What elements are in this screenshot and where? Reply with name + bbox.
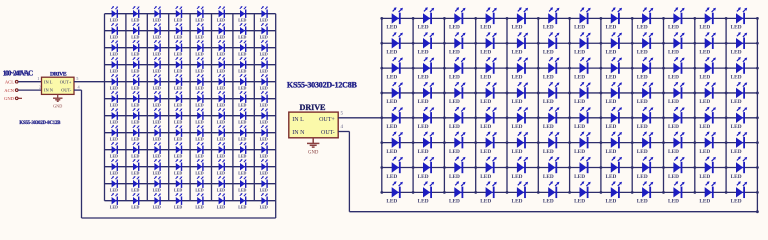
LED D118 (right matrix row 2 col 10) xyxy=(668,32,685,55)
LED D49 (left matrix row 7 col 1) xyxy=(110,108,118,124)
LED D38 (left matrix row 5 col 6) xyxy=(217,74,225,90)
LED D160 (right matrix row 6 col 4) xyxy=(480,132,497,155)
LED D45 (left matrix row 6 col 5) xyxy=(195,91,203,107)
driver module U1 DRIVE (left) xyxy=(42,71,75,94)
LED D59 (left matrix row 8 col 3) xyxy=(153,125,161,141)
LED D165 (right matrix row 6 col 9) xyxy=(637,132,654,155)
svg-text:1: 1 xyxy=(37,76,39,81)
LED D71 (left matrix row 9 col 7) xyxy=(238,142,246,158)
LED D107 (right matrix row 1 col 11) xyxy=(699,7,716,30)
LED D27 (left matrix row 4 col 3) xyxy=(153,57,161,73)
LED D86 (left matrix row 11 col 6) xyxy=(217,176,225,192)
LED D188 (right matrix row 8 col 8) xyxy=(605,181,622,204)
LED D67 (left matrix row 9 col 3) xyxy=(153,142,161,158)
LED D116 (right matrix row 2 col 8) xyxy=(605,32,622,55)
svg-text:OUT+: OUT+ xyxy=(319,117,335,123)
LED D131 (right matrix row 3 col 11) xyxy=(699,57,716,80)
svg-text:DRIVE: DRIVE xyxy=(300,103,327,112)
LED D12 (left matrix row 2 col 4) xyxy=(174,23,182,39)
LED D32 (left matrix row 4 col 8) xyxy=(260,57,268,73)
LED D52 (left matrix row 7 col 4) xyxy=(174,108,182,124)
LED D155 (right matrix row 5 col 11) xyxy=(699,107,716,130)
svg-text:IN N: IN N xyxy=(292,130,305,136)
LED D159 (right matrix row 6 col 3) xyxy=(449,132,466,155)
LED D133 (right matrix row 4 col 1) xyxy=(386,82,403,105)
LED D127 (right matrix row 3 col 7) xyxy=(574,57,591,80)
junction dots (right matrix) xyxy=(380,17,758,213)
LED D31 (left matrix row 4 col 7) xyxy=(238,57,246,73)
wire: left matrix column line 6 xyxy=(211,14,213,201)
LED D48 (left matrix row 6 col 8) xyxy=(260,91,268,107)
LED D43 (left matrix row 6 col 3) xyxy=(153,91,161,107)
LED D141 (right matrix row 4 col 9) xyxy=(637,82,654,105)
svg-text:5: 5 xyxy=(341,110,344,116)
wire: left matrix column line 1 xyxy=(104,14,106,201)
LED D103 (right matrix row 1 col 7) xyxy=(574,7,591,30)
LED D115 (right matrix row 2 col 7) xyxy=(574,32,591,55)
LED D142 (right matrix row 4 col 10) xyxy=(668,82,685,105)
LED D192 (right matrix row 8 col 12) xyxy=(731,181,748,204)
LED D8 (left matrix row 1 col 8) xyxy=(260,6,268,22)
wire: right matrix column line 12 xyxy=(725,18,727,192)
LED D87 (left matrix row 11 col 7) xyxy=(238,176,246,192)
LED D7 (left matrix row 1 col 7) xyxy=(238,6,246,22)
LED D54 (left matrix row 7 col 6) xyxy=(217,108,225,124)
LED D136 (right matrix row 4 col 4) xyxy=(480,82,497,105)
LED D137 (right matrix row 4 col 5) xyxy=(512,82,529,105)
wire: left matrix row 10 bus xyxy=(105,166,276,168)
svg-text:GND: GND xyxy=(53,104,62,109)
LED D147 (right matrix row 5 col 3) xyxy=(449,107,466,130)
wire OUT+ of U1 to left matrix xyxy=(74,81,105,83)
wire left matrix bottom return bus xyxy=(82,217,276,219)
LED D94 (left matrix row 12 col 6) xyxy=(217,193,225,209)
LED D19 (left matrix row 3 col 3) xyxy=(153,40,161,56)
wire: right matrix row 2 bus xyxy=(382,42,758,44)
LED D187 (right matrix row 8 col 7) xyxy=(574,181,591,204)
LED D175 (right matrix row 7 col 7) xyxy=(574,156,591,179)
LED D119 (right matrix row 2 col 11) xyxy=(699,32,716,55)
LED D166 (right matrix row 6 col 10) xyxy=(668,132,685,155)
svg-text:GND: GND xyxy=(308,151,319,156)
wire: left matrix row 5 bus xyxy=(105,81,276,83)
LED D124 (right matrix row 3 col 4) xyxy=(480,57,497,80)
LED D76 (left matrix row 10 col 4) xyxy=(174,159,182,175)
LED D117 (right matrix row 2 col 9) xyxy=(637,32,654,55)
wire: left matrix row 2 bus xyxy=(105,30,276,32)
wire: left matrix row 9 bus xyxy=(105,149,276,151)
wire: left matrix column line 5 xyxy=(189,14,191,201)
wire OUT- of U1 down and along bottom xyxy=(74,89,82,91)
wire: left matrix row 11 bus xyxy=(105,183,276,185)
wire: right matrix column line 2 xyxy=(412,18,414,192)
wire: right matrix column line 3 xyxy=(443,18,445,192)
driver module U2 DRIVE (right) xyxy=(289,103,338,138)
wire: right matrix row 6 bus xyxy=(382,142,758,144)
LED D170 (right matrix row 7 col 2) xyxy=(418,156,435,179)
LED D51 (left matrix row 7 col 3) xyxy=(153,108,161,124)
LED D22 (left matrix row 3 col 6) xyxy=(217,40,225,56)
LED D77 (left matrix row 10 col 5) xyxy=(195,159,203,175)
svg-text:ACL: ACL xyxy=(5,79,14,84)
wire: left matrix row 1 bus xyxy=(105,13,276,15)
LED D143 (right matrix row 4 col 11) xyxy=(699,82,716,105)
svg-text:KS55-30302D-8C12B: KS55-30302D-8C12B xyxy=(19,121,61,126)
LED D173 (right matrix row 7 col 5) xyxy=(512,156,529,179)
wire: left matrix row 12 bus xyxy=(105,200,276,202)
LED D145 (right matrix row 5 col 1) xyxy=(386,107,403,130)
LED D121 (right matrix row 3 col 1) xyxy=(386,57,403,80)
LED D34 (left matrix row 5 col 2) xyxy=(131,74,139,90)
LED D178 (right matrix row 7 col 10) xyxy=(668,156,685,179)
LED D112 (right matrix row 2 col 4) xyxy=(480,32,497,55)
LED D37 (left matrix row 5 col 5) xyxy=(195,74,203,90)
LED D46 (left matrix row 6 col 6) xyxy=(217,91,225,107)
LED D69 (left matrix row 9 col 5) xyxy=(195,142,203,158)
LED D23 (left matrix row 3 col 7) xyxy=(238,40,246,56)
LED D17 (left matrix row 3 col 1) xyxy=(110,40,118,56)
svg-text:IN N: IN N xyxy=(44,88,54,93)
LED D85 (left matrix row 11 col 5) xyxy=(195,176,203,192)
LED D2 (left matrix row 1 col 2) xyxy=(131,6,139,22)
LED D157 (right matrix row 6 col 1) xyxy=(386,132,403,155)
LED D89 (left matrix row 12 col 1) xyxy=(110,193,118,209)
wire: right matrix column line 9 xyxy=(631,18,633,192)
LED D13 (left matrix row 2 col 5) xyxy=(195,23,203,39)
LED D138 (right matrix row 4 col 6) xyxy=(543,82,560,105)
LED D73 (left matrix row 10 col 1) xyxy=(110,159,118,175)
LED D79 (left matrix row 10 col 7) xyxy=(238,159,246,175)
wire: left matrix row 3 bus xyxy=(105,47,276,49)
svg-text:IN L: IN L xyxy=(292,117,304,123)
LED D24 (left matrix row 3 col 8) xyxy=(260,40,268,56)
LED D47 (left matrix row 6 col 7) xyxy=(238,91,246,107)
LED D60 (left matrix row 8 col 4) xyxy=(174,125,182,141)
LED D132 (right matrix row 3 col 12) xyxy=(731,57,748,80)
wire: left matrix column line 4 xyxy=(168,14,170,201)
LED D174 (right matrix row 7 col 6) xyxy=(543,156,560,179)
LED D68 (left matrix row 9 col 4) xyxy=(174,142,182,158)
LED D82 (left matrix row 11 col 2) xyxy=(131,176,139,192)
LED D156 (right matrix row 5 col 12) xyxy=(731,107,748,130)
LED D15 (left matrix row 2 col 7) xyxy=(238,23,246,39)
wire OUT+ of U2 to right matrix xyxy=(338,117,382,119)
wire: right matrix row 4 bus xyxy=(382,92,758,94)
LED D172 (right matrix row 7 col 4) xyxy=(480,156,497,179)
LED D18 (left matrix row 3 col 2) xyxy=(131,40,139,56)
LED D3 (left matrix row 1 col 3) xyxy=(153,6,161,22)
LED D40 (left matrix row 5 col 8) xyxy=(260,74,268,90)
wire: right matrix column line 11 xyxy=(694,18,696,192)
wire: left matrix column line 3 xyxy=(146,14,148,201)
LED D108 (right matrix row 1 col 12) xyxy=(731,7,748,30)
LED D125 (right matrix row 3 col 5) xyxy=(512,57,529,80)
LED D135 (right matrix row 4 col 3) xyxy=(449,82,466,105)
LED D93 (left matrix row 12 col 5) xyxy=(195,193,203,209)
svg-text:2: 2 xyxy=(39,85,41,90)
LED D180 (right matrix row 7 col 12) xyxy=(731,156,748,179)
LED D150 (right matrix row 5 col 6) xyxy=(543,107,560,130)
wire: right matrix column line 13 xyxy=(756,18,758,192)
svg-text:OUT-: OUT- xyxy=(321,130,335,136)
LED D179 (right matrix row 7 col 11) xyxy=(699,156,716,179)
LED D169 (right matrix row 7 col 1) xyxy=(386,156,403,179)
LED D42 (left matrix row 6 col 2) xyxy=(131,91,139,107)
LED D122 (right matrix row 3 col 2) xyxy=(418,57,435,80)
LED D106 (right matrix row 1 col 10) xyxy=(668,7,685,30)
svg-text:5: 5 xyxy=(76,76,78,81)
LED D6 (left matrix row 1 col 6) xyxy=(217,6,225,22)
wire: right matrix column line 7 xyxy=(569,18,571,192)
LED D74 (left matrix row 10 col 2) xyxy=(131,159,139,175)
LED D146 (right matrix row 5 col 2) xyxy=(418,107,435,130)
LED D20 (left matrix row 3 col 4) xyxy=(174,40,182,56)
LED D126 (right matrix row 3 col 6) xyxy=(543,57,560,80)
svg-text:GND: GND xyxy=(4,96,15,101)
LED D104 (right matrix row 1 col 8) xyxy=(605,7,622,30)
LED D9 (left matrix row 2 col 1) xyxy=(110,23,118,39)
LED D102 (right matrix row 1 col 6) xyxy=(543,7,560,30)
LED D44 (left matrix row 6 col 4) xyxy=(174,91,182,107)
LED D110 (right matrix row 2 col 2) xyxy=(418,32,435,55)
LED D154 (right matrix row 5 col 10) xyxy=(668,107,685,130)
LED D72 (left matrix row 9 col 8) xyxy=(260,142,268,158)
LED D78 (left matrix row 10 col 6) xyxy=(217,159,225,175)
LED D1 (left matrix row 1 col 1) xyxy=(110,6,118,22)
LED D55 (left matrix row 7 col 7) xyxy=(238,108,246,124)
LED D95 (left matrix row 12 col 7) xyxy=(238,193,246,209)
LED D134 (right matrix row 4 col 2) xyxy=(418,82,435,105)
LED D5 (left matrix row 1 col 5) xyxy=(195,6,203,22)
LED D36 (left matrix row 5 col 4) xyxy=(174,74,182,90)
LED D139 (right matrix row 4 col 7) xyxy=(574,82,591,105)
LED D41 (left matrix row 6 col 1) xyxy=(110,91,118,107)
svg-text:100~240VAC: 100~240VAC xyxy=(3,70,34,78)
wire: left matrix row 4 bus xyxy=(105,64,276,66)
LED D149 (right matrix row 5 col 5) xyxy=(512,107,529,130)
LED D14 (left matrix row 2 col 6) xyxy=(217,23,225,39)
LED D28 (left matrix row 4 col 4) xyxy=(174,57,182,73)
LED D114 (right matrix row 2 col 6) xyxy=(543,32,560,55)
wire: left matrix row 6 bus xyxy=(105,98,276,100)
wire OUT- of U2 down xyxy=(338,131,349,133)
LED D171 (right matrix row 7 col 3) xyxy=(449,156,466,179)
LED D81 (left matrix row 11 col 1) xyxy=(110,176,118,192)
LED D50 (left matrix row 7 col 2) xyxy=(131,108,139,124)
LED D10 (left matrix row 2 col 2) xyxy=(131,23,139,39)
port GND input xyxy=(4,96,22,101)
LED D61 (left matrix row 8 col 5) xyxy=(195,125,203,141)
LED D105 (right matrix row 1 col 9) xyxy=(637,7,654,30)
LED D128 (right matrix row 3 col 8) xyxy=(605,57,622,80)
wire: left matrix row 7 bus xyxy=(105,115,276,117)
LED D148 (right matrix row 5 col 4) xyxy=(480,107,497,130)
LED D163 (right matrix row 6 col 7) xyxy=(574,132,591,155)
LED D167 (right matrix row 6 col 11) xyxy=(699,132,716,155)
wire: right matrix column line 8 xyxy=(600,18,602,192)
wire ACN to IN N pin 2 xyxy=(18,89,41,91)
svg-text:DRIVE: DRIVE xyxy=(50,71,67,77)
svg-text:KS55-30302D-12C8B: KS55-30302D-12C8B xyxy=(287,81,358,90)
LED D63 (left matrix row 8 col 7) xyxy=(238,125,246,141)
LED D90 (left matrix row 12 col 2) xyxy=(131,193,139,209)
wire: right matrix column line 6 xyxy=(537,18,539,192)
wire: right matrix column line 1 xyxy=(381,18,383,192)
wire: left matrix column line 8 xyxy=(253,14,255,201)
svg-text:OUT+: OUT+ xyxy=(60,80,72,85)
svg-text:OUT-: OUT- xyxy=(61,88,72,93)
LED D64 (left matrix row 8 col 8) xyxy=(260,125,268,141)
LED D70 (left matrix row 9 col 6) xyxy=(217,142,225,158)
wire: right matrix row 1 bus xyxy=(382,17,758,19)
LED D66 (left matrix row 9 col 2) xyxy=(131,142,139,158)
LED D177 (right matrix row 7 col 9) xyxy=(637,156,654,179)
wire: right matrix row 7 bus xyxy=(382,167,758,169)
LED D26 (left matrix row 4 col 2) xyxy=(131,57,139,73)
port ACN xyxy=(4,88,18,93)
LED D162 (right matrix row 6 col 6) xyxy=(543,132,560,155)
LED D113 (right matrix row 2 col 5) xyxy=(512,32,529,55)
LED D152 (right matrix row 5 col 8) xyxy=(605,107,622,130)
LED D186 (right matrix row 8 col 6) xyxy=(543,181,560,204)
svg-text:4: 4 xyxy=(341,124,344,130)
ground symbol of U1 xyxy=(53,94,63,108)
LED D181 (right matrix row 8 col 1) xyxy=(386,181,403,204)
LED D120 (right matrix row 2 col 12) xyxy=(731,32,748,55)
LED D80 (left matrix row 10 col 8) xyxy=(260,159,268,175)
LED D109 (right matrix row 2 col 1) xyxy=(386,32,403,55)
LED D130 (right matrix row 3 col 10) xyxy=(668,57,685,80)
ground symbol of U2 xyxy=(307,138,319,156)
LED D91 (left matrix row 12 col 3) xyxy=(153,193,161,209)
LED D190 (right matrix row 8 col 10) xyxy=(668,181,685,204)
LED D129 (right matrix row 3 col 9) xyxy=(637,57,654,80)
LED D123 (right matrix row 3 col 3) xyxy=(449,57,466,80)
LED D191 (right matrix row 8 col 11) xyxy=(699,181,716,204)
LED D185 (right matrix row 8 col 5) xyxy=(512,181,529,204)
wire: right matrix row 8 bus xyxy=(382,191,758,193)
wire: left matrix column line 9 xyxy=(275,14,277,201)
wire: right matrix column line 10 xyxy=(663,18,665,192)
LED D176 (right matrix row 7 col 8) xyxy=(605,156,622,179)
LED D182 (right matrix row 8 col 2) xyxy=(418,181,435,204)
wire: left matrix column line 2 xyxy=(125,14,127,201)
LED D144 (right matrix row 4 col 12) xyxy=(731,82,748,105)
LED D168 (right matrix row 6 col 12) xyxy=(731,132,748,155)
LED D158 (right matrix row 6 col 2) xyxy=(418,132,435,155)
wire ACL to IN L pin 1 xyxy=(18,81,41,83)
svg-text:ACN: ACN xyxy=(4,88,14,93)
wire: right matrix column line 5 xyxy=(506,18,508,192)
LED D35 (left matrix row 5 col 3) xyxy=(153,74,161,90)
LED D4 (left matrix row 1 col 4) xyxy=(174,6,182,22)
LED D100 (right matrix row 1 col 4) xyxy=(480,7,497,30)
LED D98 (right matrix row 1 col 2) xyxy=(418,7,435,30)
wire: right matrix column line 4 xyxy=(475,18,477,192)
LED D151 (right matrix row 5 col 7) xyxy=(574,107,591,130)
LED D62 (left matrix row 8 col 6) xyxy=(217,125,225,141)
LED D25 (left matrix row 4 col 1) xyxy=(110,57,118,73)
LED D33 (left matrix row 5 col 1) xyxy=(110,74,118,90)
LED D39 (left matrix row 5 col 7) xyxy=(238,74,246,90)
LED D97 (right matrix row 1 col 1) xyxy=(386,7,403,30)
LED D99 (right matrix row 1 col 3) xyxy=(449,7,466,30)
LED D56 (left matrix row 7 col 8) xyxy=(260,108,268,124)
LED D189 (right matrix row 8 col 9) xyxy=(637,181,654,204)
LED D57 (left matrix row 8 col 1) xyxy=(110,125,118,141)
LED D21 (left matrix row 3 col 5) xyxy=(195,40,203,56)
wire: left matrix row 8 bus xyxy=(105,132,276,134)
LED D164 (right matrix row 6 col 8) xyxy=(605,132,622,155)
wire: left matrix column line 7 xyxy=(232,14,234,201)
LED D101 (right matrix row 1 col 5) xyxy=(512,7,529,30)
LED D53 (left matrix row 7 col 5) xyxy=(195,108,203,124)
LED D83 (left matrix row 11 col 3) xyxy=(153,176,161,192)
LED D92 (left matrix row 12 col 4) xyxy=(174,193,182,209)
wire right matrix bottom return bus xyxy=(349,211,757,213)
LED D153 (right matrix row 5 col 9) xyxy=(637,107,654,130)
LED D111 (right matrix row 2 col 3) xyxy=(449,32,466,55)
wire: right matrix row 3 bus xyxy=(382,67,758,69)
LED D58 (left matrix row 8 col 2) xyxy=(131,125,139,141)
svg-text:IN L: IN L xyxy=(44,80,53,85)
LED D29 (left matrix row 4 col 5) xyxy=(195,57,203,73)
LED D140 (right matrix row 4 col 8) xyxy=(605,82,622,105)
LED D96 (left matrix row 12 col 8) xyxy=(260,193,268,209)
LED D183 (right matrix row 8 col 3) xyxy=(449,181,466,204)
LED D84 (left matrix row 11 col 4) xyxy=(174,176,182,192)
LED D184 (right matrix row 8 col 4) xyxy=(480,181,497,204)
LED D11 (left matrix row 2 col 3) xyxy=(153,23,161,39)
LED D75 (left matrix row 10 col 3) xyxy=(153,159,161,175)
port ACL xyxy=(5,79,18,84)
LED D30 (left matrix row 4 col 6) xyxy=(217,57,225,73)
wire: right matrix row 5 bus xyxy=(382,117,758,119)
LED D161 (right matrix row 6 col 5) xyxy=(512,132,529,155)
LED D88 (left matrix row 11 col 8) xyxy=(260,176,268,192)
LED D16 (left matrix row 2 col 8) xyxy=(260,23,268,39)
LED D65 (left matrix row 9 col 1) xyxy=(110,142,118,158)
